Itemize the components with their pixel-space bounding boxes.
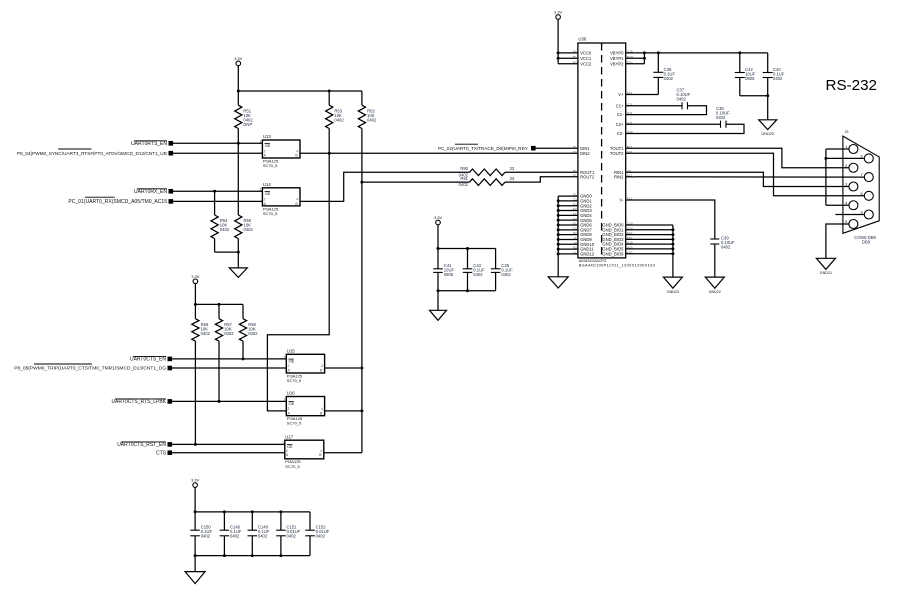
capacitor C43 — [463, 249, 485, 291]
svg-text:U14: U14 — [263, 182, 271, 187]
ground GND20 — [759, 120, 777, 136]
svg-text:DIN2: DIN2 — [580, 151, 590, 156]
junction C43 bottom — [466, 289, 469, 292]
wire 3.3V to bus — [237, 66, 239, 91]
junction R57 top — [218, 303, 221, 306]
svg-text:TOUT2: TOUT2 — [610, 151, 624, 156]
wire GND_BIO bus — [626, 225, 673, 277]
capacitor C42 — [735, 53, 756, 96]
junction cluster top — [437, 247, 440, 250]
svg-text:R90: R90 — [460, 166, 468, 171]
junction C36 top — [657, 51, 660, 54]
svg-text:U15: U15 — [287, 349, 295, 354]
svg-text:0402: 0402 — [201, 331, 211, 336]
capacitor C146 — [220, 512, 242, 556]
wire R90 to ROUT1 — [505, 171, 578, 173]
wire to R91 — [362, 181, 470, 183]
svg-text:1: 1 — [845, 145, 847, 149]
svg-text:3.3V: 3.3V — [191, 478, 199, 483]
svg-text:R91: R91 — [460, 176, 468, 181]
junction pin6 tie — [824, 157, 827, 160]
svg-text:0402: 0402 — [316, 533, 326, 538]
node CTS label — [156, 450, 172, 456]
svg-text:0402: 0402 — [287, 533, 297, 538]
capacitor C151 — [276, 512, 301, 556]
capacitor C40 — [763, 53, 785, 96]
junction R55 bottom — [237, 251, 240, 254]
wire bank top bus — [195, 511, 310, 513]
svg-text:K1: K1 — [573, 173, 577, 177]
resistor R54 — [211, 191, 230, 252]
wire CTS to U17 A — [172, 452, 285, 454]
svg-text:VCC2: VCC2 — [580, 61, 592, 66]
wire U16 B to ROUT2 net — [325, 410, 362, 412]
capacitor C41 — [433, 263, 454, 291]
wire DB9 pin5 to ground — [826, 224, 849, 258]
junction VCC0 — [557, 51, 560, 54]
svg-text:J3: J3 — [845, 130, 849, 134]
wire 3.3V down — [194, 487, 196, 530]
svg-text:B1: B1 — [573, 55, 577, 59]
capacitor C152 — [305, 512, 330, 556]
svg-text:0402: 0402 — [367, 117, 377, 122]
svg-text:U36: U36 — [578, 37, 586, 42]
svg-text:3: 3 — [845, 183, 847, 187]
node P8_04 mux label — [17, 149, 173, 156]
svg-text:0402: 0402 — [334, 117, 344, 122]
wire UART0RTS_EN to U13 OE — [173, 142, 263, 144]
svg-text:GND22: GND22 — [709, 290, 721, 294]
svg-text:P8_04(PWM0_SYNC/UART3_RTS#(PT0: P8_04(PWM0_SYNC/UART3_RTS#(PT0_ATDV/SMCD… — [17, 151, 168, 156]
U36 right pin names — [602, 51, 624, 257]
wire pull-up bus — [238, 90, 362, 92]
svg-text:1: 1 — [260, 188, 262, 192]
junction C43 top — [466, 247, 469, 250]
node UART0RX_EN label — [134, 189, 173, 195]
junction GND12 — [557, 252, 560, 255]
wire R54 to R55 bottom — [215, 251, 239, 253]
junction GND_BIO6 — [671, 252, 674, 255]
junction R53 on DIN2 wire — [328, 152, 331, 155]
svg-text:4: 4 — [845, 201, 847, 205]
svg-text:VCC0: VCC0 — [580, 51, 592, 56]
svg-text:VBYP2: VBYP2 — [610, 61, 624, 66]
wire P8_04 to U13 A — [173, 152, 263, 154]
junction GND10 — [557, 243, 560, 246]
svg-text:2: 2 — [845, 164, 847, 168]
svg-text:RIN2: RIN2 — [614, 174, 624, 179]
svg-text:0402: 0402 — [501, 272, 511, 277]
svg-text:DB9: DB9 — [862, 240, 871, 245]
junction C40 bottom — [766, 94, 769, 97]
svg-text:0402: 0402 — [473, 272, 483, 277]
svg-text:1: 1 — [282, 441, 284, 445]
capacitor C37 (C1 flying cap) — [626, 87, 707, 114]
wire to ground — [437, 291, 439, 311]
junction R91 net — [360, 181, 363, 184]
power 3.3V node (CTS pull-ups) — [191, 274, 199, 284]
svg-text:VCC1: VCC1 — [580, 56, 592, 61]
capacitor C148 — [248, 512, 270, 556]
wire U15 B to ROUT2 net — [325, 367, 362, 369]
junction bank bottom bus — [251, 554, 254, 557]
svg-text:C1+: C1+ — [616, 103, 624, 108]
svg-text:BGA44C100P11X11_1200X1200X103: BGA44C100P11X11_1200X1200X103 — [579, 262, 655, 267]
junction C41 bottom — [437, 289, 440, 292]
svg-text:DNP: DNP — [243, 122, 252, 127]
junction bank top — [194, 510, 197, 513]
wire net R91/ROUT2 vertical (R52 pull-up) — [361, 129, 363, 453]
svg-text:H1: H1 — [573, 169, 577, 173]
junction GND_BIO2 — [671, 233, 674, 236]
svg-text:0805: 0805 — [444, 272, 454, 277]
capacitor C150 — [190, 524, 212, 555]
svg-text:UART0CTS_EN: UART0CTS_EN — [130, 357, 166, 363]
svg-text:0402: 0402 — [220, 227, 230, 232]
resistor R51 — [235, 91, 254, 143]
U36 left pin numbers — [573, 50, 577, 255]
node UART0CTS_EN label — [130, 356, 172, 362]
svg-text:3.3V: 3.3V — [234, 56, 242, 61]
junction GND1 — [557, 199, 560, 202]
svg-text:0402: 0402 — [248, 331, 258, 336]
svg-text:0402: 0402 — [677, 96, 687, 101]
wire to ground — [237, 252, 239, 268]
wire cluster top bus — [438, 248, 496, 250]
svg-text:VBYP1: VBYP1 — [610, 56, 624, 61]
junction bank top bus — [251, 510, 254, 513]
svg-text:1: 1 — [284, 398, 286, 402]
node PC_02 UART0_TX label — [438, 144, 536, 151]
wire UART0CTS_EN to U15 OE — [172, 358, 287, 360]
wire UART0CTS_RTS_LPBK to U16 OE — [172, 400, 287, 402]
wire VBYP tie — [626, 53, 645, 64]
power 3.3V node (U36 decoupling) — [434, 215, 442, 225]
junction GND9 — [557, 238, 560, 241]
svg-text:0402: 0402 — [244, 227, 254, 232]
wire 3.3V down — [437, 225, 439, 269]
wire 3.3V to VCC pins — [558, 19, 578, 63]
wire U14 B to R90 (ROUT1 net) — [300, 172, 470, 201]
wire to ground — [194, 556, 196, 572]
svg-text:0402: 0402 — [459, 182, 469, 187]
junction bank ground — [194, 554, 197, 557]
junction R58 bottom — [242, 357, 245, 360]
junction GND_BIO5 — [671, 247, 674, 250]
ground (decoupling bank) — [185, 572, 205, 584]
svg-text:U17: U17 — [285, 434, 293, 439]
connector J3 DB9 — [843, 130, 879, 244]
node UART0RTS_EN label — [131, 141, 173, 147]
resistor R91 — [459, 176, 515, 187]
junction U16 B — [360, 409, 363, 412]
wire DB9 pins 1/4/6 tie — [826, 149, 864, 205]
junction GND7 — [557, 228, 560, 231]
wire U13 B to DIN2 — [300, 152, 578, 154]
junction GND11 — [557, 248, 560, 251]
junction VBYP1 — [643, 57, 646, 60]
wire U36 GND bus — [558, 196, 578, 277]
U36 right pin numbers — [627, 50, 633, 255]
wire 3.3V to CTS bus — [194, 284, 196, 319]
wire DIN2 net down to U16 A — [267, 153, 329, 411]
junction C42 top — [738, 51, 741, 54]
resistor R53 — [326, 91, 345, 153]
bus switch U14 — [260, 182, 300, 216]
junction R56 bottom — [194, 443, 197, 446]
wire P8_05 to U15 A — [172, 367, 287, 369]
svg-text:0402: 0402 — [224, 331, 234, 336]
wire UART0RX_EN to U14 OE — [173, 190, 263, 192]
svg-text:A2: A2 — [573, 50, 577, 54]
svg-text:C2+: C2+ — [616, 122, 624, 127]
junction GND8 — [557, 233, 560, 236]
svg-text:GND20: GND20 — [762, 132, 774, 136]
node P8_05 mux label — [14, 364, 172, 372]
wire U17 B to ROUT2 net — [324, 452, 362, 454]
junction GND_BIO3 — [671, 238, 674, 241]
svg-text:CTS: CTS — [156, 450, 167, 456]
ground (U36 GND pins) — [548, 277, 568, 288]
svg-text:0402: 0402 — [773, 76, 783, 81]
wire RIN2 to DB9 pin7 — [626, 176, 865, 178]
resistor R90 — [459, 166, 515, 177]
junction bank bottom bus — [279, 554, 282, 557]
svg-text:0402: 0402 — [258, 533, 268, 538]
junction GND3 — [557, 209, 560, 212]
node UART0CTS_RST_EN label — [117, 442, 172, 448]
svg-text:SC70_5: SC70_5 — [263, 163, 278, 168]
ground (pull-down resistors) — [229, 268, 247, 278]
svg-text:7: 7 — [860, 173, 862, 177]
wire UART0CTS_RST_EN to U17 OE — [172, 443, 285, 445]
bus switch U16 — [284, 391, 325, 426]
svg-text:UART0RTS_EN: UART0RTS_EN — [131, 141, 167, 147]
power 3.3V node (U36 VCC) — [554, 10, 562, 20]
junction R54 top — [213, 190, 216, 193]
wire DB9 pin9 stub — [835, 214, 864, 216]
capacitor C36 — [653, 53, 675, 95]
resistor R57 — [215, 304, 234, 401]
wire PC_02 to DIN1 — [535, 147, 578, 149]
junction bank bottom bus — [223, 554, 226, 557]
svg-text:P8_05(PWM0_TRIP(UART0_CTS/TM0_: P8_05(PWM0_TRIP(UART0_CTS/TM0_TMR1/SMCD_… — [14, 366, 166, 372]
junction R57 bottom — [218, 400, 221, 403]
svg-text:9: 9 — [860, 211, 862, 215]
wire VBYP rail — [644, 52, 767, 54]
junction U15 B — [360, 367, 363, 370]
svg-text:6: 6 — [860, 154, 862, 158]
power 3.3V node (decoupling bank) — [191, 478, 199, 488]
svg-text:V+: V+ — [618, 92, 624, 97]
junction GND5 — [557, 219, 560, 222]
svg-text:B2: B2 — [573, 60, 577, 64]
ground GND22 — [705, 277, 724, 294]
svg-text:GND21: GND21 — [820, 271, 832, 275]
resistor R58 — [239, 304, 258, 359]
svg-text:0402: 0402 — [721, 245, 731, 250]
svg-text:ROUT2: ROUT2 — [580, 174, 595, 179]
junction GND6 — [557, 224, 560, 227]
ground GND23 — [663, 277, 682, 294]
svg-text:0402: 0402 — [230, 533, 240, 538]
power 3.3V node (top left) — [234, 56, 242, 66]
svg-text:GND_BIO6: GND_BIO6 — [602, 251, 624, 256]
wire TOUT2 to DB9 pin8 — [626, 153, 865, 196]
svg-text:0805: 0805 — [745, 76, 755, 81]
svg-text:0402: 0402 — [664, 76, 674, 81]
svg-text:E1: E1 — [573, 150, 577, 154]
junction VCC1 — [557, 57, 560, 60]
junction at R51 top — [237, 90, 240, 93]
capacitor C39 (V- reservoir) — [626, 200, 735, 277]
wire RIN1 to DB9 pin3 — [626, 172, 849, 186]
U36 left pin names — [580, 51, 595, 257]
svg-text:VBYP0: VBYP0 — [610, 51, 624, 56]
resistor R56 — [192, 319, 211, 445]
bus switch U13 — [260, 134, 300, 168]
junction at R53 top — [328, 90, 331, 93]
svg-text:33: 33 — [510, 166, 515, 171]
svg-text:SC70_5: SC70_5 — [263, 211, 278, 216]
resistor R52 — [358, 91, 377, 129]
svg-text:3.3V: 3.3V — [434, 215, 442, 220]
wire TOUT1 to DB9 pin2 — [626, 148, 849, 168]
bus switch U17 — [282, 434, 324, 468]
svg-text:SC70_5: SC70_5 — [287, 378, 302, 383]
wire CTS pull-up bus — [195, 303, 243, 305]
svg-text:3.3V: 3.3V — [191, 274, 199, 279]
svg-text:PC_01(UART0_RX(SMCD_A05/TM0_AC: PC_01(UART0_RX(SMCD_A05/TM0_AC15 — [68, 199, 167, 205]
bus switch U15 — [284, 349, 325, 384]
svg-text:RS-232: RS-232 — [826, 77, 878, 94]
svg-text:1: 1 — [260, 140, 262, 144]
resistor R55 — [235, 143, 254, 252]
svg-text:0402: 0402 — [716, 115, 726, 120]
junction R56 top — [194, 303, 197, 306]
IC U36 RS-232 transceiver — [578, 37, 655, 268]
ground (U36 decoupling) — [430, 310, 447, 320]
capacitor C35 — [491, 249, 513, 291]
svg-text:3.3V: 3.3V — [554, 10, 562, 15]
svg-text:1: 1 — [284, 355, 286, 359]
junction GND_BIO1 — [671, 228, 674, 231]
junction GND_BIO4 — [671, 243, 674, 246]
junction VBYP0 — [643, 51, 646, 54]
wire R91 to ROUT2 — [505, 177, 578, 182]
wire bank bottom bus — [195, 555, 310, 557]
wire C36 to V+ — [626, 94, 659, 96]
svg-text:8: 8 — [860, 192, 862, 196]
svg-text:V-: V- — [620, 198, 625, 203]
junction bank top bus — [223, 510, 226, 513]
svg-text:C2-: C2- — [617, 131, 624, 136]
junction GND4 — [557, 214, 560, 217]
wire PC_01 to U14 A — [173, 200, 263, 202]
svg-text:PC_02(UART0_TX/TRACE_D0(MIPI0_: PC_02(UART0_TX/TRACE_D0(MIPI0_RDY — [438, 146, 528, 151]
svg-text:UART0CTS_RTS_LPBK: UART0CTS_RTS_LPBK — [111, 399, 166, 405]
node UART0CTS_RTS_LPBK label — [111, 399, 172, 405]
capacitor C38 (C2 flying cap) — [626, 106, 744, 134]
svg-text:U16: U16 — [287, 391, 295, 396]
junction GND2 — [557, 204, 560, 207]
svg-text:0402: 0402 — [201, 533, 211, 538]
wire C42/C40 bottoms — [740, 95, 768, 97]
wire to ground — [767, 96, 769, 120]
svg-text:SC70_5: SC70_5 — [287, 421, 302, 426]
svg-text:33: 33 — [510, 176, 515, 181]
svg-text:U13: U13 — [263, 134, 271, 139]
node PC_01 mux label — [68, 197, 173, 205]
svg-text:5: 5 — [845, 220, 847, 224]
svg-text:UART0CTS_RST_EN: UART0CTS_RST_EN — [117, 442, 166, 448]
svg-text:GND23: GND23 — [667, 290, 679, 294]
svg-text:GND12: GND12 — [580, 252, 595, 257]
ground GND21 — [816, 258, 835, 275]
wire cluster bottom bus — [438, 290, 496, 292]
junction R51/R55 on OE wire — [237, 142, 240, 145]
junction bank top bus — [279, 510, 282, 513]
svg-text:UART0RX_EN: UART0RX_EN — [134, 189, 167, 195]
svg-text:C1-: C1- — [617, 112, 624, 117]
svg-text:SC70_5: SC70_5 — [285, 464, 300, 469]
